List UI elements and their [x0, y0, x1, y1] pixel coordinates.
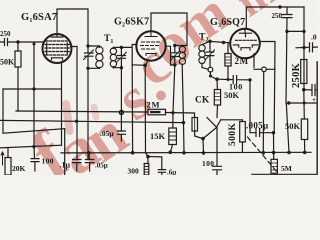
trimmer arrow T1 secondary cap: [117, 52, 126, 62]
svg-text:500K: 500K: [228, 123, 238, 146]
tube 6SK7 internals: [141, 31, 160, 55]
wire: AF line down: [250, 80, 256, 133]
svg-text:100: 100: [42, 157, 54, 166]
svg-text:.6μ: .6μ: [167, 169, 176, 176]
wire: 6SQ7 cathode lead: [254, 54, 275, 70]
wire: y103 line to edge: [289, 102, 318, 104]
tube 6SK7 envelope: [136, 31, 165, 60]
resistor 2M horizontal: [148, 109, 166, 115]
node: B+ y31: [302, 30, 305, 33]
resistor 50K (detector): [216, 79, 218, 89]
wire: 100pF branch from grid lead: [33, 44, 35, 148]
trimmer arrow T2 secondary cap: [206, 50, 215, 60]
node: AF coupling: [248, 78, 251, 81]
wire: 6SQ7 right lead down: [260, 42, 275, 133]
node: 100pF rail: [32, 145, 35, 148]
T1 secondary capacitor branch: [113, 47, 125, 131]
inductor: T2 secondary coil: [199, 45, 208, 70]
svg-text:5M: 5M: [281, 164, 292, 173]
scan border right edge: [316, 62, 318, 175]
resistor 50K (output): [301, 119, 307, 140]
svg-text:15K: 15K: [150, 131, 166, 141]
node: 15K top on line A: [171, 111, 174, 114]
node: T2 primary cap top: [173, 44, 176, 47]
tube 6SQ7 envelope: [230, 29, 260, 59]
resistor 5M: [271, 159, 277, 173]
node: 100pF top tap: [33, 43, 36, 46]
svg-text:250: 250: [272, 12, 283, 20]
tube 6SQ7 internals: [233, 29, 257, 50]
node: cap250 bottom y31: [285, 30, 288, 33]
wire: T2 secondary top to 6SQ7 grid: [202, 41, 230, 44]
trimmer arrow T2 primary cap: [170, 51, 179, 61]
node: y47 at B+: [302, 46, 305, 49]
node: cathode bypass tap: [146, 155, 150, 159]
svg-text:.1μ: .1μ: [60, 161, 71, 170]
wire: 6SK7 plate to T2 primary top: [151, 13, 187, 46]
inductor: T1 primary coil: [96, 46, 103, 68]
wire: y47 branch with edge capacitor: [296, 43, 318, 52]
svg-text:50K: 50K: [285, 121, 301, 131]
tube 6SA7 envelope: [43, 34, 72, 63]
capacitor .005u: [256, 129, 274, 137]
trimmer arrow T1 primary cap: [84, 50, 94, 60]
resistor 50K (left): [17, 42, 19, 111]
potentiometer 20K with arrow: [7, 148, 9, 158]
wire: cathode return to rail: [262, 72, 264, 153]
T1 primary top/bottom ties: [88, 46, 100, 68]
svg-text:250: 250: [0, 30, 11, 38]
svg-text:G26SK7: G26SK7: [114, 17, 149, 29]
wire: screen node to edge electrolytic: [304, 85, 318, 96]
node: detector node: [215, 77, 219, 81]
ground rail left segment: [0, 145, 62, 148]
wire: 6SA7 screen lead down: [71, 47, 78, 160]
capacitor 250 (plate bypass): [282, 7, 292, 103]
node: T1 secondary top: [120, 46, 123, 49]
node: T2 primary cap bottom: [173, 63, 176, 66]
node: rail screen chain: [131, 151, 135, 155]
wire: 6SK7 cathode lead: [145, 60, 148, 153]
svg-text:.05μ: .05μ: [95, 162, 108, 170]
potentiometer 500K: [240, 122, 246, 143]
wire: 6SA7 cathode lead down joining left rail: [61, 62, 63, 145]
inductor: T2 primary coil: [179, 46, 185, 66]
node: y103 at B+: [303, 101, 306, 104]
svg-text:CK: CK: [195, 96, 210, 106]
wire: 287 down to rail: [286, 103, 289, 152]
jack CK: frame box: [192, 118, 198, 132]
node: jack rail: [202, 151, 205, 154]
node: line B right end: [182, 121, 185, 124]
resistor 300 (cathode bias): [146, 153, 149, 164]
wire: 6SK7 grid zig: [121, 45, 145, 66]
node: 100pF top: [32, 87, 35, 90]
jack CK: spring contacts: [207, 118, 221, 128]
T2 primary capacitor branch: [171, 46, 179, 113]
capacitor .05u (bottom): [85, 153, 93, 171]
node: y103 junction: [287, 101, 290, 104]
ground rail main segment: [61, 151, 311, 154]
terminal: T2 secondary bottom (diode tap): [208, 67, 213, 72]
wire: B+ down to 50K: [303, 90, 306, 119]
node: B+ screen node: [302, 88, 306, 92]
paper background: [0, 0, 318, 175]
wire: left loop down from bias line: [3, 89, 65, 175]
node: rail 6SQ7 cathode: [262, 151, 266, 155]
svg-text:300: 300: [128, 167, 140, 176]
capacitor .05u on T1 secondary return: [117, 131, 125, 141]
node: rail 287: [287, 151, 291, 155]
svg-text:20K: 20K: [12, 164, 26, 173]
resistor 250K vertical on B+: [301, 60, 307, 84]
wire: T2 primary coil bottom down to line B: [182, 65, 183, 123]
svg-text:.05μ: .05μ: [100, 129, 114, 138]
resistor 2M vertical (detector load): [227, 43, 229, 54]
node: 6SK7 cathode junction: [143, 64, 147, 68]
svg-text:100: 100: [202, 159, 214, 168]
node: T1 primary bottom: [86, 67, 89, 70]
inductor: T1 secondary coil: [110, 47, 116, 67]
node: 250pF top: [278, 5, 281, 8]
svg-text:50K: 50K: [224, 90, 240, 100]
svg-text:G16SA7: G16SA7: [21, 12, 57, 24]
wire: .005 node to rail and 5M: [273, 133, 275, 160]
node: T1 primary top: [86, 44, 89, 47]
capacitor .1u: [73, 160, 81, 172]
svg-text:2M: 2M: [147, 100, 161, 110]
wire: detector node to 100pF: [217, 76, 250, 84]
wire: B+ right vertical: [303, 7, 305, 90]
scan border bottom edge: [252, 173, 318, 175]
dashed link: pot to 5M: [248, 137, 278, 172]
svg-text:G36SQ7: G36SQ7: [210, 17, 245, 29]
wire: line B (AVC bus): [0, 120, 184, 122]
wire: line B end down to rail: [183, 123, 186, 153]
wire: bias line y=89: [3, 88, 61, 90]
node: rail 15K: [169, 150, 173, 154]
tube 6SA7 internals: [45, 34, 69, 60]
svg-text:2M: 2M: [235, 56, 249, 66]
node: grid input junction: [16, 40, 19, 43]
node: .005u right: [272, 131, 275, 134]
capacitor .6u cathode bypass: [148, 157, 166, 175]
wire: 6SK7 screen lead right: [166, 46, 175, 65]
T2 secondary capacitor branch: [206, 41, 214, 67]
svg-text:+: +: [312, 96, 316, 104]
node: screen bypass junction on AVC line B: [75, 120, 78, 123]
node: T1 secondary bottom: [120, 66, 123, 69]
wire: 6SQ7 plate to B+ top rail: [246, 7, 304, 29]
node: rail line B: [182, 151, 186, 155]
wire: line A (AVC/jack bus) with 2M inline: [16, 111, 195, 118]
node: 6SQ7 grid: [222, 41, 225, 44]
svg-text:.0: .0: [311, 33, 317, 42]
node: T1 secondary return on line A (ring): [119, 110, 123, 114]
wire: antenna input with capacitor 250: [0, 39, 44, 46]
wire: 6SA7 plate to T1 primary top: [57, 9, 88, 46]
node: 5M rail: [272, 151, 276, 155]
node: rail 50K output: [303, 151, 307, 155]
wire: screen chain down to rail: [131, 65, 133, 153]
resistor 15K vertical: [172, 113, 174, 128]
node: T2 secondary top: [208, 40, 212, 44]
node: rail .05u: [87, 151, 91, 155]
capacitor 100 (cathode bypass): [213, 128, 222, 175]
capacitor 100 (left): [31, 147, 39, 171]
terminal: cathode open circle: [262, 67, 267, 72]
node: jack frame: [201, 137, 205, 141]
T1 primary capacitor branch: [85, 46, 94, 160]
svg-text:250K: 250K: [291, 62, 302, 88]
svg-text:.005μ: .005μ: [246, 121, 268, 131]
svg-text:50K: 50K: [0, 58, 15, 67]
wire: tie y31: [287, 30, 304, 32]
T2 primary top tie: [175, 45, 187, 47]
node: 2M bottom: [227, 78, 230, 81]
wire: contact to 500K: [221, 120, 243, 122]
